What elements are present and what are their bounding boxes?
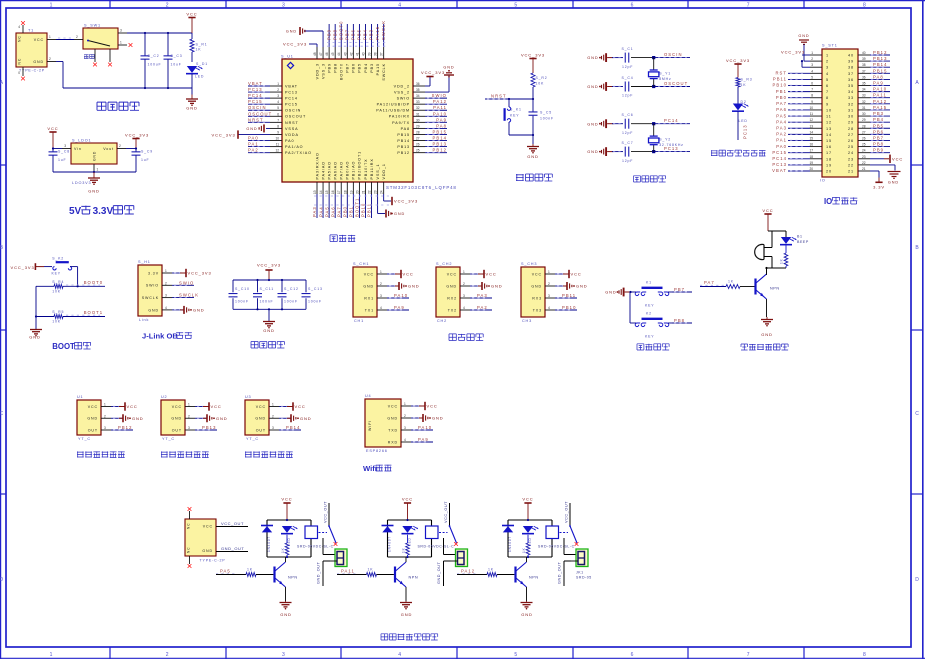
- MCU U1 STM32F103C8T6 body: [281, 55, 457, 191]
- svg-text:VCC: VCC: [172, 405, 182, 409]
- svg-text:33: 33: [416, 100, 420, 104]
- svg-text:18: 18: [343, 190, 347, 194]
- svg-text:GND: GND: [521, 612, 533, 617]
- svg-text:2: 2: [188, 414, 190, 418]
- svg-text:U4: U4: [365, 394, 371, 398]
- svg-text:PB0/AO: PB0/AO: [346, 161, 350, 180]
- svg-text:PA8: PA8: [436, 123, 447, 128]
- ground GND relay: [521, 601, 533, 617]
- wire relay NO contact: [444, 538, 458, 555]
- svg-text:GND: GND: [576, 284, 588, 289]
- net label PA5 input: [216, 569, 246, 575]
- svg-text:1: 1: [50, 2, 53, 8]
- caption crystal circuit: [634, 176, 666, 182]
- MCU pin 9 VDDA wire: [238, 130, 299, 136]
- svg-text:S_C13: S_C13: [308, 287, 323, 291]
- header pin 29 PB4: [848, 117, 890, 125]
- svg-text:45: 45: [331, 52, 335, 56]
- header pin 19 PC13: [772, 161, 832, 168]
- svg-text:18: 18: [809, 155, 813, 159]
- svg-text:37: 37: [380, 52, 384, 56]
- svg-text:18: 18: [826, 157, 832, 161]
- svg-text:46: 46: [325, 52, 329, 56]
- svg-text:4: 4: [380, 306, 382, 310]
- svg-text:23: 23: [374, 190, 378, 194]
- wire filter top rail: [233, 279, 306, 281]
- svg-text:GND: GND: [531, 284, 542, 288]
- svg-text:TX1: TX1: [365, 308, 374, 312]
- svg-text:3: 3: [282, 2, 285, 8]
- module U2 pin 2 GND: [171, 414, 227, 422]
- svg-text:U3: U3: [245, 395, 251, 399]
- svg-text:GND: GND: [33, 60, 44, 64]
- capacitor S_C12 100nF: [278, 280, 299, 309]
- svg-text:YT_C: YT_C: [78, 437, 91, 441]
- svg-text:10: 10: [826, 108, 832, 112]
- MCU pin 32 PA11/USB/DM: [376, 105, 447, 112]
- svg-text:VCC: VCC: [47, 126, 58, 131]
- capacitor S_C3 10uF: [164, 33, 183, 88]
- header pin 28 PB5: [848, 123, 890, 130]
- svg-text:36: 36: [848, 78, 854, 82]
- svg-text:24: 24: [862, 149, 866, 153]
- svg-text:S_U1: S_U1: [281, 55, 294, 59]
- header pin 11 PA5: [776, 112, 832, 119]
- svg-text:VCC: VCC: [762, 208, 773, 213]
- resistor 1K base: [246, 568, 273, 577]
- svg-text:32.768KHz: 32.768KHz: [659, 143, 684, 147]
- svg-text:RX3: RX3: [532, 296, 542, 300]
- svg-text:31: 31: [416, 112, 420, 116]
- module S_CH3 pin 4 PB10: [533, 305, 577, 312]
- svg-text:PC15: PC15: [285, 103, 298, 107]
- svg-text:13: 13: [313, 190, 317, 194]
- svg-text:3: 3: [188, 426, 190, 430]
- svg-text:PA11/USB/DM: PA11/USB/DM: [376, 109, 410, 113]
- svg-text:PB14: PB14: [397, 139, 410, 143]
- svg-text:12pF: 12pF: [622, 159, 633, 163]
- module U3 body: [245, 395, 269, 441]
- svg-text:10: 10: [275, 137, 279, 141]
- MCU pin 10 PA0: [248, 136, 294, 143]
- capacitor S_C9 1uF: [132, 149, 153, 173]
- resistor S_R3 1K: [736, 78, 752, 104]
- svg-text:1: 1: [49, 35, 51, 39]
- svg-text:2: 2: [404, 414, 406, 418]
- svg-text:1K: 1K: [741, 83, 747, 87]
- MCU pin 1 VBAT: [248, 81, 298, 88]
- svg-text:RX1: RX1: [364, 296, 374, 300]
- svg-text:2: 2: [811, 57, 813, 61]
- net VCC_OUT vertical: [565, 501, 571, 526]
- MCU pin 38 PA15: [374, 24, 380, 75]
- svg-text:PB15: PB15: [433, 129, 447, 134]
- svg-text:PC15: PC15: [772, 150, 787, 155]
- svg-text:3.3V: 3.3V: [93, 206, 114, 217]
- svg-text:30: 30: [416, 118, 420, 122]
- module S_CH2 pin 4 PA2: [448, 305, 492, 312]
- switch S_SW1: [74, 24, 132, 67]
- svg-text:1K: 1K: [780, 258, 784, 264]
- relay switch lever: [560, 525, 579, 546]
- caption filter: [251, 342, 284, 349]
- connector green load: [330, 549, 347, 567]
- MCU pin 27 PB14: [397, 136, 447, 143]
- svg-text:2: 2: [826, 60, 829, 64]
- svg-text:GND: GND: [587, 55, 598, 60]
- caption liquid trigger U2: [161, 451, 209, 457]
- svg-text:1K: 1K: [247, 568, 253, 572]
- svg-text:34: 34: [862, 88, 866, 92]
- header pin 24 PB9: [848, 148, 890, 156]
- svg-text:1N4007: 1N4007: [508, 536, 512, 552]
- svg-text:S_Y2: S_Y2: [659, 138, 671, 142]
- svg-text:37: 37: [848, 72, 854, 76]
- svg-text:T1: T1: [28, 29, 34, 33]
- svg-text:5: 5: [514, 2, 517, 8]
- svg-text:PB5: PB5: [357, 29, 362, 40]
- net label VCC_OUT tc: [216, 521, 248, 527]
- wire relay frame: [388, 519, 432, 558]
- svg-text:PB14: PB14: [286, 425, 300, 430]
- svg-text:PA0: PA0: [285, 139, 294, 143]
- svg-text:PA4/AO: PA4/AO: [321, 161, 325, 179]
- svg-text:12: 12: [826, 121, 832, 125]
- svg-text:21: 21: [361, 190, 365, 194]
- svg-text:K1: K1: [646, 281, 652, 285]
- MCU pin 35 VSS_2 to GND: [394, 66, 455, 95]
- module U2 pin 1 VCC: [172, 402, 222, 410]
- svg-text:PA11: PA11: [873, 93, 887, 98]
- svg-text:PB1: PB1: [349, 206, 354, 217]
- svg-text:9: 9: [826, 102, 829, 106]
- svg-text:VCC_OUT: VCC_OUT: [221, 521, 244, 526]
- svg-text:VBAT: VBAT: [285, 84, 298, 88]
- svg-text:PC15: PC15: [248, 99, 263, 104]
- transistor NPN relay: [395, 557, 418, 601]
- MCU pin 31 PA10/RX: [389, 111, 447, 118]
- wire key link: [630, 292, 636, 323]
- svg-text:PB13: PB13: [433, 142, 447, 147]
- module U4 pin 2 GND: [387, 414, 443, 422]
- connector J1 TYPE-C-2P bottom: [185, 507, 225, 568]
- power port VCC ldo: [47, 126, 58, 149]
- crystal S_Y1 8MHz: [649, 58, 672, 87]
- svg-text:1: 1: [120, 41, 122, 45]
- header pin 6 PB10: [773, 82, 829, 89]
- svg-text:32: 32: [862, 100, 866, 104]
- svg-text:PA9: PA9: [394, 305, 405, 310]
- svg-text:25: 25: [862, 143, 866, 147]
- svg-text:PA3: PA3: [776, 125, 787, 130]
- svg-text:SRD-05VDC-SL-C: SRD-05VDC-SL-C: [418, 545, 455, 549]
- caption reset circuit: [516, 174, 552, 181]
- svg-text:PA10: PA10: [433, 111, 447, 116]
- svg-text:PA12: PA12: [461, 569, 475, 574]
- module S_CH1 pin 3 PA10: [364, 293, 409, 300]
- svg-text:S_Y1: S_Y1: [659, 72, 671, 76]
- svg-text:NC: NC: [18, 58, 22, 65]
- svg-text:VCC: VCC: [892, 156, 903, 161]
- net label PA12 input: [457, 569, 487, 575]
- module U1 pin 1 VCC: [88, 402, 138, 410]
- header pin 7 PB1: [776, 88, 829, 95]
- power port VCC relay PA5: [281, 497, 292, 521]
- svg-text:PB8: PB8: [873, 142, 884, 147]
- svg-text:GND_OUT: GND_OUT: [317, 561, 321, 584]
- svg-text:1: 1: [97, 168, 99, 172]
- svg-text:36: 36: [416, 82, 420, 86]
- svg-text:PA10: PA10: [418, 425, 432, 430]
- net GND_OUT vertical: [437, 561, 451, 586]
- svg-text:VCC: VCC: [388, 404, 398, 408]
- svg-text:GND: GND: [171, 417, 182, 421]
- svg-text:38: 38: [848, 66, 854, 70]
- svg-text:VSSA: VSSA: [285, 127, 298, 131]
- LED relay: [522, 526, 538, 546]
- module S_CH2 body: [436, 262, 460, 323]
- module U1 pin 2 GND: [87, 414, 143, 422]
- svg-text:IO: IO: [820, 179, 826, 183]
- svg-text:Wifi: Wifi: [363, 464, 377, 473]
- svg-text:VBAT: VBAT: [248, 81, 263, 86]
- svg-text:3: 3: [380, 294, 382, 298]
- connector T1 TYPE-C-2P: [16, 21, 56, 80]
- net label BOOT0: [66, 280, 103, 285]
- header pin 33 PA11: [848, 93, 890, 101]
- capacitor S_C8 1uF: [49, 149, 70, 173]
- MCU pin 16 PA6: [330, 161, 337, 218]
- svg-text:Vout: Vout: [103, 147, 114, 151]
- svg-text:VCC: VCC: [127, 404, 138, 409]
- wire filter bottom rail: [233, 308, 306, 310]
- transistor NPN relay: [516, 557, 539, 601]
- svg-text:PA2: PA2: [248, 148, 259, 153]
- svg-text:VSS_3: VSS_3: [321, 63, 325, 79]
- svg-text:39: 39: [862, 57, 866, 61]
- svg-text:PC14: PC14: [664, 118, 679, 123]
- MCU pin 29 PA8: [401, 123, 447, 130]
- svg-text:VCC_3V3: VCC_3V3: [781, 50, 805, 55]
- svg-text:29: 29: [416, 124, 420, 128]
- power port VCC: [186, 12, 197, 34]
- svg-text:28: 28: [848, 127, 854, 131]
- svg-text:PA3: PA3: [477, 293, 488, 298]
- svg-text:VSS_2: VSS_2: [394, 90, 410, 94]
- svg-text:PA11: PA11: [433, 105, 447, 110]
- module U3 pin 1 VCC: [256, 402, 306, 410]
- svg-text:PB12: PB12: [873, 50, 887, 55]
- svg-text:SWCLK: SWCLK: [382, 63, 386, 81]
- svg-text:1: 1: [188, 403, 190, 407]
- power port VCC_3V3 reset: [521, 53, 545, 74]
- svg-text:J-Link OB: J-Link OB: [142, 332, 178, 341]
- ground GND ldo: [88, 172, 100, 194]
- svg-text:1: 1: [380, 270, 382, 274]
- MCU pin 28 PB15: [397, 129, 447, 136]
- svg-text:13: 13: [826, 127, 832, 131]
- svg-text:43: 43: [343, 52, 347, 56]
- connector green load: [571, 549, 588, 567]
- svg-text:GND: GND: [432, 416, 444, 421]
- net VCC_OUT vertical: [444, 501, 450, 526]
- svg-text:S_LDO1: S_LDO1: [72, 139, 91, 143]
- capacitor S_C11 100nF: [253, 280, 274, 309]
- svg-text:GND: GND: [446, 284, 457, 288]
- svg-text:21: 21: [862, 167, 866, 171]
- ground GND reset: [527, 135, 539, 159]
- svg-text:PA11: PA11: [341, 569, 355, 574]
- wire reset bottom: [509, 134, 534, 136]
- svg-text:PA7: PA7: [704, 280, 715, 285]
- svg-text:27: 27: [848, 133, 854, 137]
- svg-text:17: 17: [826, 151, 832, 155]
- svg-text:1uF: 1uF: [58, 158, 66, 162]
- svg-text:VCC_3V3: VCC_3V3: [726, 58, 750, 63]
- svg-text:OSCOUT: OSCOUT: [248, 111, 272, 116]
- svg-text:3: 3: [404, 426, 406, 430]
- svg-text:PC13: PC13: [248, 87, 263, 92]
- svg-text:4: 4: [398, 2, 401, 8]
- svg-text:PB4: PB4: [364, 63, 368, 73]
- net label PC13 vertical runled: [743, 124, 748, 139]
- svg-text:PB13: PB13: [397, 145, 410, 149]
- module S_CH2 pin 1 VCC: [447, 270, 497, 278]
- svg-text:5: 5: [277, 106, 279, 110]
- resistor S_R4 10K: [36, 280, 105, 293]
- svg-text:100nF: 100nF: [235, 299, 249, 303]
- svg-text:S_CH1: S_CH1: [353, 262, 369, 266]
- svg-text:10K: 10K: [536, 82, 545, 86]
- svg-text:PA12: PA12: [873, 99, 887, 104]
- resistor 1K relay vertical: [281, 535, 289, 557]
- MCU pin 37 SWCLK: [380, 20, 386, 81]
- svg-text:4: 4: [811, 69, 813, 73]
- svg-text:4: 4: [548, 306, 550, 310]
- svg-text:6: 6: [826, 84, 829, 88]
- svg-text:40: 40: [361, 52, 365, 56]
- svg-text:29: 29: [862, 118, 866, 122]
- svg-text:20: 20: [809, 167, 813, 171]
- svg-text:VCC_3V3: VCC_3V3: [521, 53, 545, 58]
- header pin 12 PA4: [776, 118, 832, 125]
- svg-text:1K: 1K: [728, 280, 734, 284]
- svg-text:PB12: PB12: [118, 425, 132, 430]
- svg-text:1: 1: [463, 270, 465, 274]
- power port VCC relay PA11: [402, 497, 413, 521]
- caption J-Link: [142, 332, 192, 341]
- net label PA11 input: [337, 569, 367, 575]
- svg-text:2: 2: [76, 35, 78, 39]
- net label BOOT1: [66, 310, 103, 315]
- svg-text:100uF: 100uF: [148, 63, 162, 67]
- caption alarm: [741, 344, 788, 350]
- module U4 body: [365, 394, 401, 453]
- svg-text:VCC: VCC: [88, 405, 98, 409]
- MCU pin 18 PB0: [343, 161, 350, 218]
- MCU pin 2 PC13: [248, 87, 298, 94]
- svg-text:PB10/TX: PB10/TX: [364, 158, 368, 179]
- svg-text:BOOT1: BOOT1: [355, 198, 360, 217]
- module U3 pin 2 GND: [255, 414, 311, 422]
- svg-text:VCC: VCC: [211, 404, 222, 409]
- svg-text:VCC: VCC: [281, 497, 292, 502]
- svg-text:23: 23: [862, 155, 866, 159]
- resistor 1K base: [487, 568, 514, 577]
- svg-text:BOOT0: BOOT0: [340, 63, 344, 80]
- svg-text:38: 38: [374, 52, 378, 56]
- svg-text:36: 36: [862, 75, 866, 79]
- power port VCC alarm: [762, 208, 773, 231]
- svg-text:PC14: PC14: [285, 97, 298, 101]
- svg-text:PA15: PA15: [376, 63, 380, 75]
- wire relay NO contact: [564, 538, 578, 555]
- svg-text:KEY: KEY: [510, 114, 519, 118]
- svg-text:GND: GND: [255, 417, 266, 421]
- svg-text:PB1/AO: PB1/AO: [352, 161, 356, 180]
- svg-text:3.3V: 3.3V: [148, 271, 159, 275]
- svg-text:GND: GND: [491, 284, 503, 289]
- svg-text:S_R2: S_R2: [536, 76, 548, 80]
- header VCC_3V3 pin1: [781, 50, 810, 56]
- module S_CH3 pin 1 VCC: [532, 270, 582, 278]
- MCU pin 3 PC14: [248, 93, 298, 100]
- svg-text:S_ST1: S_ST1: [822, 44, 838, 48]
- caption liquid trigger U3: [245, 451, 293, 457]
- svg-text:U1: U1: [77, 395, 83, 399]
- svg-text:7: 7: [826, 90, 829, 94]
- svg-text:PC14: PC14: [248, 93, 263, 98]
- transistor NPN relay: [275, 557, 298, 601]
- diode 1N4007: [261, 526, 273, 553]
- svg-text:B1: B1: [797, 235, 803, 239]
- svg-text:VCC_3V3: VCC_3V3: [257, 263, 281, 268]
- module U4 pin 1 VCC: [388, 402, 438, 410]
- svg-text:1K: 1K: [522, 547, 526, 553]
- caption BOOT: [52, 342, 90, 351]
- svg-text:VCC_3V3: VCC_3V3: [421, 70, 445, 75]
- svg-text:Vin: Vin: [74, 147, 82, 151]
- svg-text:48: 48: [313, 52, 317, 56]
- svg-text:PA1/AO: PA1/AO: [285, 145, 303, 149]
- svg-text:32: 32: [416, 106, 420, 110]
- svg-text:VCC: VCC: [447, 272, 457, 276]
- svg-text:6: 6: [631, 2, 634, 8]
- svg-text:S_C4: S_C4: [622, 76, 634, 80]
- svg-text:PA12/USB/DP: PA12/USB/DP: [377, 103, 410, 107]
- svg-text:24: 24: [380, 190, 384, 194]
- svg-text:1K: 1K: [402, 547, 406, 553]
- svg-text:PB8: PB8: [333, 63, 337, 73]
- svg-text:2: 2: [166, 652, 169, 658]
- LED D2: [732, 100, 748, 140]
- svg-text:TYPE-C-2P: TYPE-C-2P: [200, 559, 226, 563]
- MCU pin 48 VDD_3 to VCC_3V3: [283, 42, 319, 80]
- svg-text:PA10: PA10: [873, 87, 887, 92]
- svg-text:PB6: PB6: [351, 29, 356, 40]
- svg-text:LED: LED: [739, 119, 748, 123]
- svg-text:3: 3: [548, 294, 550, 298]
- svg-text:VCC_OUT: VCC_OUT: [565, 501, 569, 523]
- svg-text:8: 8: [863, 652, 866, 658]
- svg-text:3: 3: [120, 29, 122, 33]
- svg-text:RX2: RX2: [447, 296, 457, 300]
- svg-text:PB0: PB0: [343, 206, 348, 217]
- MCU pin 15 PA5: [324, 161, 331, 218]
- svg-text:GND: GND: [443, 66, 454, 70]
- svg-text:PB4: PB4: [873, 117, 884, 122]
- svg-text:12pF: 12pF: [622, 65, 633, 69]
